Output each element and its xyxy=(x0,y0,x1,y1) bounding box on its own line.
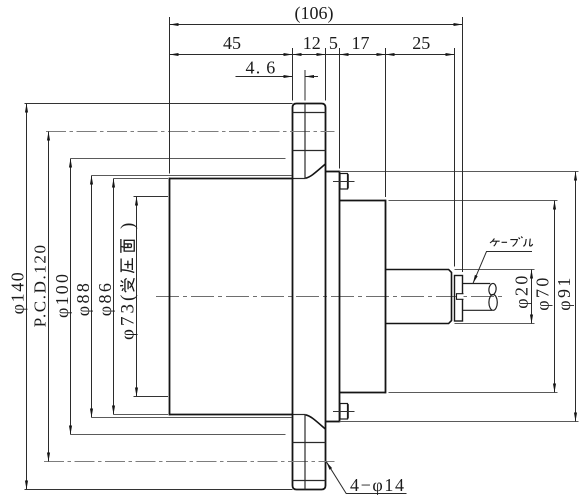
leader to cable xyxy=(473,252,532,284)
kanji 受 xyxy=(120,239,134,292)
svg-text:(106): (106) xyxy=(295,3,334,24)
svg-text:17: 17 xyxy=(352,33,370,53)
phi100 step lines + extension xyxy=(71,159,286,435)
label cable katakana ke-buru as paths xyxy=(490,237,534,247)
fillet weld top xyxy=(306,164,326,178)
phi20 dim arrows xyxy=(530,270,533,279)
kanji 面 xyxy=(121,239,134,253)
cable gland tube phi20 xyxy=(386,270,452,324)
17 arrows xyxy=(377,53,386,56)
cable xyxy=(463,283,498,310)
svg-text:45: 45 xyxy=(223,33,241,53)
phi86 extension lines xyxy=(114,179,169,415)
svg-text:φ86: φ86 xyxy=(95,281,115,317)
mounting plate phi91 xyxy=(326,171,340,422)
phi86 dim arrows xyxy=(112,179,115,188)
5 arrows (outside) xyxy=(340,53,349,56)
svg-text:P.C.D.120: P.C.D.120 xyxy=(30,243,49,327)
phi73 dim arrows xyxy=(135,197,138,206)
4.6 arrows (outside) xyxy=(284,75,293,78)
phi20 extension lines xyxy=(455,269,535,271)
sensor housing phi70 xyxy=(340,200,386,394)
extension verticals top xyxy=(169,17,171,174)
dim line 45/12/5/17/25 xyxy=(170,54,455,56)
centerline horizontal axis xyxy=(156,296,504,298)
left dim verticals xyxy=(26,104,28,490)
svg-text:12: 12 xyxy=(303,33,321,53)
fillet weld bottom xyxy=(306,415,326,429)
svg-text:): ) xyxy=(117,223,138,229)
bolt hole phi14 top xyxy=(293,113,326,151)
phi140 dim arrows xyxy=(25,104,28,113)
dim 4.6 xyxy=(236,76,293,78)
svg-text:φ20: φ20 xyxy=(512,273,532,309)
phi88 lip lines + extension to dim xyxy=(92,176,292,418)
phi91 dim arrows xyxy=(574,172,577,181)
rim notch (cable entry) xyxy=(457,294,464,300)
phi73 extension lines (diaphragm face) xyxy=(134,197,169,397)
svg-text:φ70: φ70 xyxy=(533,275,553,311)
dim line (106) xyxy=(170,24,463,26)
cable leader arrow xyxy=(473,275,478,283)
gland end rim xyxy=(455,276,463,322)
phi88 dim arrows xyxy=(90,176,93,185)
svg-text:4−φ14: 4−φ14 xyxy=(350,475,406,495)
12 arrows xyxy=(293,53,302,56)
main body cylinder phi86 outline xyxy=(169,178,293,416)
svg-text:φ140: φ140 xyxy=(8,271,28,315)
svg-text:φ100: φ100 xyxy=(52,272,72,318)
(106) arrows xyxy=(170,23,179,26)
dim text phi73(juatsumen) rotated, kanji as paths xyxy=(117,223,138,340)
4-phi14 leader arrow xyxy=(326,462,332,470)
flange phi140 xyxy=(293,104,326,490)
bolt hole phi14 bottom xyxy=(293,443,326,481)
svg-text:5: 5 xyxy=(329,33,338,53)
svg-text:25: 25 xyxy=(412,33,430,53)
phi91 extension lines xyxy=(340,171,579,173)
45 arrows xyxy=(170,53,179,56)
P.C.D.120 dim arrows xyxy=(47,132,50,141)
25 arrows xyxy=(386,53,395,56)
right dim verticals xyxy=(531,270,533,324)
svg-text:φ91: φ91 xyxy=(554,275,574,311)
body edge under flange to groove xyxy=(293,179,306,415)
groove line 4.6 from flange face xyxy=(304,104,306,179)
phi70 dim arrows xyxy=(553,201,556,210)
screw bottom xyxy=(340,404,348,420)
flange top/bottom edge extension to phi140 dim xyxy=(25,103,293,105)
kanji 圧 xyxy=(121,258,134,272)
svg-text:φ88: φ88 xyxy=(73,281,93,317)
P.C.D. bolt circle centerlines (dash-dot) xyxy=(46,131,335,133)
phi100 dim arrows xyxy=(69,159,72,168)
screw top xyxy=(340,174,348,190)
leader 4-phi14 xyxy=(326,462,406,494)
svg-text:φ73(: φ73( xyxy=(117,292,138,340)
svg-text:4. 6: 4. 6 xyxy=(246,58,277,78)
phi70 extension lines xyxy=(389,200,558,202)
cable S-break xyxy=(488,283,497,295)
